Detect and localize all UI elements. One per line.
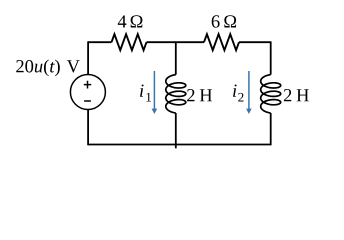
label source 20u(t) V [16,59,80,76]
label current i1 [140,84,151,101]
wire middle vertical upper [175,42,177,74]
resistor R2 6 ohm zigzag [204,34,239,50]
inductor L2 coil [261,75,281,113]
wire top-middle segment [147,41,205,43]
inductor L1 coil [166,75,186,113]
wire right vertical lower [270,113,272,145]
label inductance L1 2 H [187,89,212,101]
wire left vertical lower [87,110,89,146]
plus sign [84,81,91,89]
current arrow i2 [248,71,250,110]
wire middle vertical lower [175,113,177,148]
label inductance L2 2 H [284,89,309,101]
resistor R1 4 ohm zigzag [112,34,147,50]
voltage source V1 circle [70,75,105,110]
wire right vertical upper [270,41,272,74]
wire left vertical upper [87,41,89,74]
current arrow i1 [153,71,155,110]
label 4 ohm [118,15,143,27]
wire top-left segment [88,41,111,43]
wire top-right segment [239,41,271,43]
label 6 ohm [212,15,236,27]
minus sign [84,100,91,102]
label current i2 [233,84,243,101]
wire bottom [88,144,271,146]
